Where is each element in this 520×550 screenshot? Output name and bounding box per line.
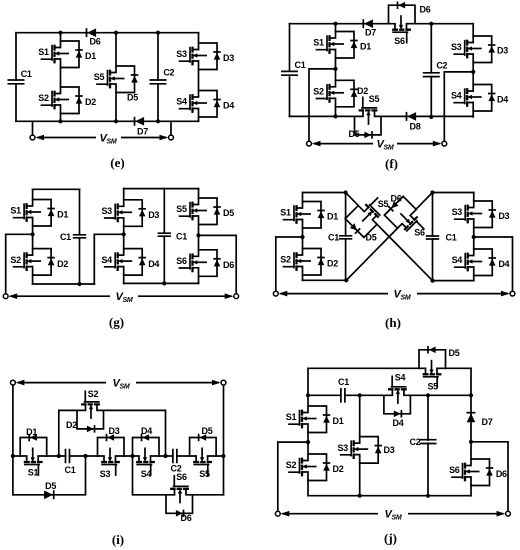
wire top rail left module: [33, 188, 80, 190]
svg-text:S6: S6: [394, 36, 405, 46]
dimension arrowhead: [160, 135, 169, 141]
node terminal left: [275, 511, 280, 516]
Vsm dimension line: [314, 143, 440, 145]
junction dot: [306, 393, 310, 397]
wire bottom rail: [290, 115, 474, 117]
svg-text:C2: C2: [436, 60, 447, 70]
svg-text:S5: S5: [427, 382, 438, 392]
svg-text:S2: S2: [10, 255, 21, 265]
wire leg3 midpoint to right terminal: [199, 235, 237, 293]
svg-text:D7: D7: [365, 28, 376, 38]
svg-text:D4: D4: [141, 426, 152, 436]
wire C2 column: [430, 24, 432, 117]
svg-text:D2: D2: [357, 86, 368, 96]
junction dot: [344, 190, 348, 194]
transistor S1: [14, 200, 55, 227]
junction dot: [358, 494, 362, 498]
capacitor C2: [173, 449, 177, 464]
svg-text:D2: D2: [327, 259, 338, 269]
junction dot: [333, 67, 337, 71]
transistor S2: [42, 87, 83, 114]
svg-text:D1: D1: [26, 427, 37, 437]
capacitor C1: [281, 71, 298, 75]
svg-text:S5: S5: [369, 94, 380, 104]
svg-text:D6: D6: [496, 469, 507, 479]
svg-text:S3: S3: [100, 469, 111, 479]
transistor S4: [180, 91, 221, 118]
node terminal left: [307, 141, 312, 146]
svg-text:S3: S3: [101, 206, 112, 216]
svg-text:D7: D7: [137, 127, 148, 137]
wire S6 bypass branch: [133, 456, 224, 495]
wire bottom rail right module: [433, 280, 474, 282]
svg-text:(h): (h): [385, 315, 401, 330]
svg-text:D6: D6: [181, 513, 192, 523]
transistor S1: [317, 32, 358, 59]
junction dot: [156, 31, 160, 35]
junction dot: [469, 393, 473, 397]
dimension arrowhead: [212, 380, 221, 386]
svg-text:D4: D4: [148, 259, 159, 269]
svg-text:D4: D4: [497, 95, 508, 105]
dimension arrowhead: [501, 291, 510, 297]
wire S1-S2 column: [60, 33, 62, 122]
node terminal right: [510, 291, 515, 296]
wire top rail: [290, 23, 474, 25]
transistor S3: [455, 201, 496, 228]
wire diagonal B lower segment: [346, 228, 397, 280]
wire main rail: [13, 455, 224, 457]
dimension arrowhead: [497, 511, 506, 517]
transistor S2: [289, 454, 330, 481]
transistor S3: [454, 36, 495, 63]
wire leg3 column: [198, 189, 200, 284]
svg-text:S4: S4: [141, 469, 152, 479]
junction dot: [472, 235, 476, 239]
capacitor C1b: [158, 233, 171, 236]
dimension arrowhead: [312, 141, 321, 147]
svg-text:S1: S1: [10, 206, 21, 216]
wire S3-S4 column: [198, 33, 200, 122]
svg-text:D3: D3: [384, 445, 395, 455]
transistor S1: [289, 406, 330, 433]
wire left midpoint step to terminal: [309, 69, 336, 141]
svg-text:C2: C2: [163, 68, 174, 78]
transistor S3: [105, 200, 146, 227]
junction dot: [300, 235, 304, 239]
wire top rail: [308, 367, 471, 369]
wire S3 column: [359, 395, 361, 495]
svg-text:C1: C1: [328, 233, 339, 243]
wire bottom rail: [16, 120, 199, 122]
transistor S5 rotated: [419, 346, 446, 387]
svg-text:S6: S6: [449, 465, 460, 475]
wire top rail: [16, 32, 199, 34]
wire bottom rail right module: [124, 282, 199, 284]
junction dot: [306, 440, 310, 444]
wire S5 column: [115, 33, 117, 122]
transistor S5: [97, 66, 138, 93]
wire C1 column: [289, 24, 291, 117]
junction dot: [429, 22, 433, 26]
wire left midpoint step to terminal: [278, 442, 308, 511]
wire step leg1-bottom to leg2 midpoint: [94, 234, 123, 284]
wire left leg column: [302, 193, 304, 281]
svg-text:D1: D1: [57, 210, 68, 220]
junction dot: [358, 393, 362, 397]
wire right midpoint step to terminal: [474, 237, 513, 294]
transistor S2 rotated: [77, 391, 104, 432]
svg-text:D7: D7: [482, 417, 493, 427]
capacitor C2: [423, 73, 440, 77]
junction dot: [162, 281, 166, 285]
junction dot: [221, 454, 225, 458]
junction dot: [58, 119, 62, 123]
transistor S4 rotated: [384, 376, 411, 417]
junction dot: [430, 279, 434, 283]
svg-text:C1: C1: [65, 465, 76, 475]
diode D6: [87, 28, 97, 37]
transistor S4: [454, 85, 495, 112]
wire C1a column: [345, 193, 347, 281]
svg-text:S2: S2: [38, 93, 49, 103]
svg-text:VSM: VSM: [377, 138, 394, 151]
transistor S4: [455, 249, 496, 276]
node terminal right: [221, 380, 226, 385]
svg-text:S5: S5: [176, 204, 187, 214]
dimension arrowhead: [9, 293, 18, 299]
svg-text:D5: D5: [366, 233, 377, 243]
wire C1b column: [432, 193, 434, 281]
svg-text:D8: D8: [410, 122, 421, 132]
svg-text:S6: S6: [414, 228, 425, 238]
svg-text:S3: S3: [452, 207, 463, 217]
wire right leg column: [473, 193, 475, 281]
svg-text:VSM: VSM: [385, 509, 402, 522]
svg-text:D6: D6: [223, 260, 234, 270]
wire right step to terminal: [471, 442, 508, 512]
svg-text:C1: C1: [446, 233, 457, 243]
svg-text:D5: D5: [449, 348, 460, 358]
transistor S4: [105, 249, 146, 276]
junction dot: [114, 31, 118, 35]
svg-text:(j): (j): [384, 531, 397, 546]
svg-text:D4: D4: [498, 259, 509, 269]
wire right midpoint step to terminal: [444, 72, 473, 141]
junction dot: [469, 440, 473, 444]
svg-text:S4: S4: [395, 373, 406, 383]
wire S3-S4 column: [472, 24, 474, 117]
wire right column with D7: [470, 368, 472, 496]
svg-text:D1: D1: [85, 51, 96, 61]
wire C1 row: [308, 394, 471, 396]
capacitor C2: [150, 80, 167, 84]
capacitor C2: [420, 440, 437, 444]
wire leg1 midpoint to left terminal: [6, 234, 33, 293]
svg-text:S5: S5: [94, 72, 105, 82]
wire S2 bypass branch: [59, 410, 166, 456]
capacitor C1: [341, 388, 345, 403]
junction dot: [122, 232, 126, 236]
svg-text:VSM: VSM: [116, 291, 133, 304]
node terminal left: [30, 135, 35, 140]
transistor S6: [452, 459, 493, 486]
dimension arrowhead: [281, 511, 290, 517]
junction dot: [83, 454, 87, 458]
node terminal left: [273, 291, 278, 296]
svg-text:S3: S3: [337, 443, 348, 453]
transistor S2: [14, 249, 55, 276]
diode D7: [363, 19, 373, 28]
dimension arrowhead: [279, 291, 288, 297]
svg-text:D4: D4: [393, 418, 404, 428]
svg-text:D1: D1: [360, 42, 371, 52]
svg-text:VSM: VSM: [100, 132, 117, 145]
wire bottom rail left module: [33, 283, 95, 285]
wire left branch C1 column: [15, 33, 17, 122]
svg-text:S4: S4: [176, 97, 187, 107]
junction dot: [426, 393, 430, 397]
wire bottom rail left module: [303, 279, 347, 281]
wire C1b column: [163, 189, 165, 284]
Vsm dimension line: [282, 513, 503, 515]
junction dot: [57, 454, 61, 458]
svg-text:D2: D2: [85, 97, 96, 107]
svg-text:S3: S3: [176, 49, 187, 59]
svg-text:D5: D5: [45, 481, 56, 491]
wire diagonal A upper segment: [346, 193, 359, 206]
transistor S1: [284, 202, 325, 229]
svg-text:C1: C1: [176, 232, 187, 242]
svg-text:S4: S4: [452, 255, 463, 265]
node terminal right: [169, 135, 174, 140]
wire S1-S2 column: [335, 24, 337, 117]
capacitor C1: [8, 80, 25, 84]
transistor S1 rotated: [20, 434, 47, 475]
capacitor C1a: [339, 236, 352, 239]
Vsm dimension line: [10, 295, 232, 297]
transistor S5 rotated 135: [343, 192, 391, 240]
junction dot: [429, 115, 433, 119]
wire top rail right module: [433, 192, 474, 194]
svg-text:(g): (g): [109, 315, 124, 330]
wire diagonal B upper segment: [416, 193, 432, 210]
diode D7: [135, 117, 145, 126]
wire C1a column: [79, 189, 81, 284]
node terminal right: [234, 294, 239, 299]
svg-text:C2: C2: [410, 437, 421, 447]
svg-text:(f): (f): [385, 156, 398, 171]
svg-text:S1: S1: [28, 468, 39, 478]
svg-text:S2: S2: [313, 87, 324, 97]
svg-text:C1: C1: [21, 69, 32, 79]
junction dot: [58, 31, 62, 35]
svg-text:D2: D2: [66, 420, 77, 430]
junction dot: [11, 454, 15, 458]
Vsm dimension line: [280, 293, 508, 295]
wire diagonal A lower segment: [377, 224, 433, 280]
dimension arrowhead: [433, 141, 442, 147]
transistor S3 rotated: [98, 434, 125, 475]
svg-text:D3: D3: [497, 46, 508, 56]
svg-text:D3: D3: [223, 53, 234, 63]
svg-text:D3: D3: [109, 426, 120, 436]
svg-text:D5: D5: [349, 129, 360, 139]
svg-text:S5: S5: [378, 199, 389, 209]
svg-text:D6: D6: [420, 5, 431, 15]
svg-text:C1: C1: [60, 232, 71, 242]
transistor S6 rotated: [166, 476, 193, 517]
transistor S2: [317, 80, 358, 107]
svg-text:D6: D6: [90, 37, 101, 47]
svg-text:D2: D2: [57, 259, 68, 269]
node terminal right: [442, 141, 447, 146]
svg-text:S3: S3: [451, 42, 462, 52]
junction dot: [430, 190, 434, 194]
junction dot: [114, 119, 118, 123]
transistor S6: [180, 250, 221, 276]
node terminal left: [3, 294, 8, 299]
svg-text:D2: D2: [333, 464, 344, 474]
junction dot: [333, 22, 337, 26]
capacitor C1b: [426, 236, 439, 239]
Vsm dimension line: [37, 137, 167, 139]
svg-text:D1: D1: [327, 212, 338, 222]
Vsm dimension line: [17, 382, 219, 384]
wire left column: [307, 368, 309, 495]
svg-text:C1: C1: [338, 377, 349, 387]
svg-text:(i): (i): [112, 532, 124, 547]
node terminal left: [11, 380, 16, 385]
junction dot: [77, 282, 81, 286]
svg-text:S1: S1: [280, 208, 291, 218]
junction dot: [196, 233, 200, 237]
transistor S6 rotated -135: [382, 194, 430, 242]
wire top rail left module: [303, 192, 346, 194]
svg-text:D5: D5: [223, 208, 234, 218]
svg-text:S4: S4: [451, 91, 462, 101]
wire right terminal column: [223, 385, 225, 495]
dimension arrowhead: [35, 135, 44, 141]
svg-text:S1: S1: [38, 47, 49, 57]
node terminal right: [506, 511, 511, 516]
svg-text:D3: D3: [148, 210, 159, 220]
capacitor C1: [66, 449, 70, 464]
transistor S3: [180, 43, 221, 70]
wire right terminal stub: [170, 121, 172, 135]
wire top rail right module: [124, 188, 199, 190]
svg-text:(e): (e): [110, 155, 124, 170]
wire D5 bypass branch: [13, 456, 86, 495]
junction dot: [333, 114, 337, 118]
svg-text:S6: S6: [176, 472, 187, 482]
svg-text:S2: S2: [88, 389, 99, 399]
wire left terminal column: [12, 385, 14, 495]
diode D8: [407, 112, 417, 121]
transistor S2: [284, 249, 325, 276]
transistor S6 rotated: [389, 1, 416, 42]
diode D7: [467, 413, 476, 423]
svg-text:S5: S5: [199, 469, 210, 479]
svg-text:D5: D5: [127, 93, 138, 103]
svg-text:D4: D4: [223, 101, 234, 111]
junction dot: [344, 278, 348, 282]
diode D5 lower: [44, 490, 54, 499]
junction dot: [156, 119, 160, 123]
wire leg1 column: [32, 189, 34, 284]
svg-text:S1: S1: [313, 38, 324, 48]
transistor S5: [180, 198, 221, 225]
svg-text:S2: S2: [280, 255, 291, 265]
wire left midpoint step to terminal: [276, 237, 303, 294]
svg-text:VSM: VSM: [394, 288, 411, 301]
wire C2 column: [427, 395, 429, 496]
dimension arrowhead: [225, 293, 234, 299]
svg-text:S1: S1: [286, 412, 297, 422]
wire bottom rail: [308, 495, 471, 497]
transistor S4 rotated: [133, 434, 160, 475]
dimension arrowhead: [16, 380, 25, 386]
svg-text:C1: C1: [295, 60, 306, 70]
transistor S5 rotated: [190, 434, 217, 475]
svg-text:S4: S4: [101, 255, 112, 265]
wire left terminal stub: [32, 121, 34, 135]
svg-text:D6: D6: [391, 194, 402, 204]
svg-text:D1: D1: [333, 416, 344, 426]
svg-text:S2: S2: [286, 460, 297, 470]
junction dot: [163, 454, 167, 458]
svg-text:D3: D3: [498, 211, 509, 221]
capacitor C1a: [73, 235, 86, 238]
svg-text:VSM: VSM: [113, 377, 130, 390]
wire C2 column: [157, 33, 159, 122]
svg-text:S6: S6: [176, 256, 187, 266]
junction dot: [471, 70, 475, 74]
transistor S3: [341, 437, 382, 464]
wire leg2 column: [123, 189, 125, 284]
transistor S5 rotated: [355, 97, 382, 138]
junction dot: [426, 494, 430, 498]
junction dot: [130, 454, 134, 458]
svg-text:D5: D5: [202, 426, 213, 436]
junction dot: [30, 232, 34, 236]
transistor S1: [42, 41, 83, 68]
